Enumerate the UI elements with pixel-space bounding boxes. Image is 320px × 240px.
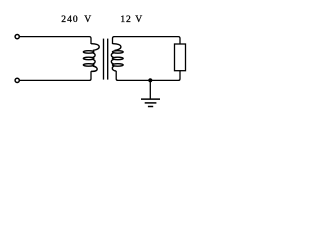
terminal (open circle, primary top) [15, 35, 19, 39]
terminal (open circle, primary bottom) [15, 78, 19, 82]
svg-text:12: 12 [120, 14, 131, 25]
wire primary top with corner down [20, 37, 91, 44]
resistor R1 [175, 44, 186, 71]
ground [141, 99, 160, 106]
wire primary bottom lead and bottom wire [20, 71, 91, 80]
svg-text:240: 240 [61, 14, 78, 25]
inductor L2 secondary winding [111, 44, 123, 71]
wire secondary bottom lead with corner to bottom wire [116, 71, 118, 81]
svg-text:V: V [135, 14, 142, 25]
transformer core line right [107, 39, 109, 80]
wire secondary top [114, 37, 181, 44]
wire secondary top lead down [113, 37, 115, 44]
wire resistor bottom lead [117, 71, 180, 81]
inductor L1 primary winding [83, 44, 99, 72]
svg-text:V: V [84, 14, 91, 25]
ground lead wire [149, 80, 151, 99]
transformer core line left [103, 39, 105, 80]
junction node [148, 78, 152, 82]
